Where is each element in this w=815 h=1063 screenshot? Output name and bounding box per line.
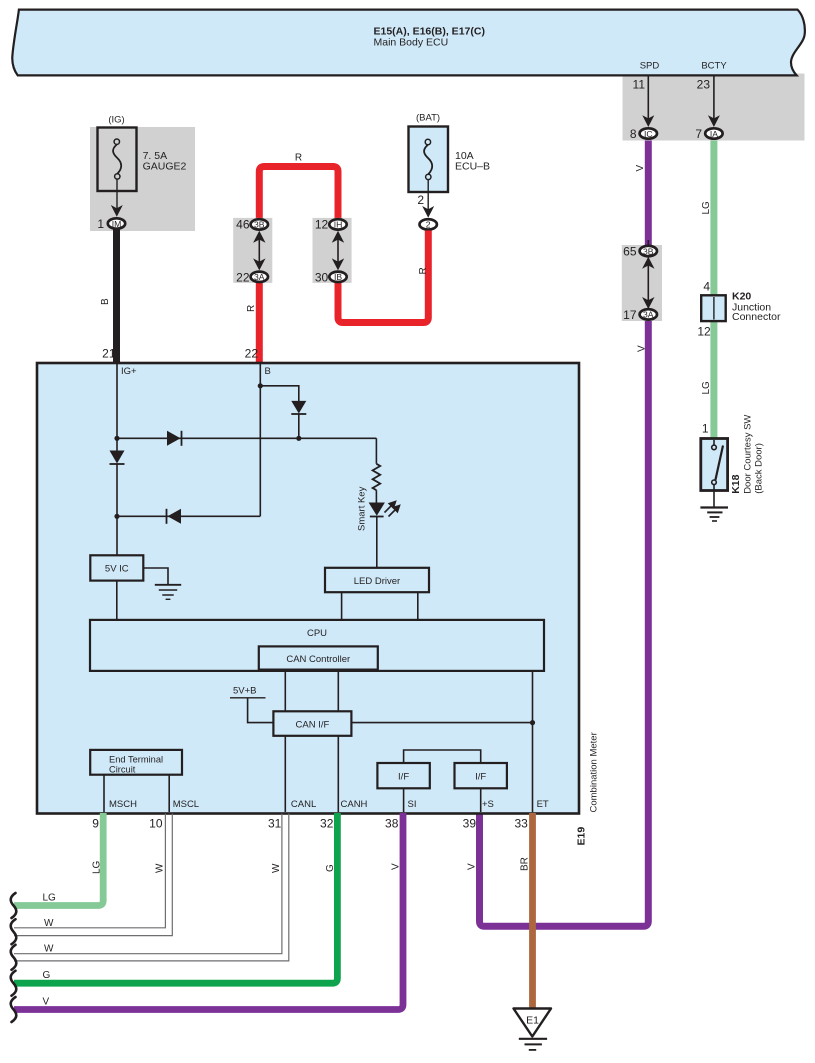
svg-text:65: 65	[623, 245, 637, 259]
svg-text:12: 12	[315, 218, 329, 232]
svg-text:V: V	[43, 997, 50, 1008]
svg-text:R: R	[418, 267, 429, 274]
svg-text:B: B	[100, 298, 111, 305]
svg-text:IM: IM	[112, 219, 122, 229]
svg-text:32: 32	[320, 817, 334, 831]
svg-text:BR: BR	[520, 857, 531, 871]
svg-text:Smart Key: Smart Key	[357, 486, 368, 531]
svg-text:5V+B: 5V+B	[233, 686, 257, 697]
svg-text:End Terminal: End Terminal	[109, 755, 163, 765]
svg-text:Door Courtesy SW: Door Courtesy SW	[743, 415, 754, 494]
svg-text:V: V	[637, 345, 648, 352]
svg-text:IG+: IG+	[121, 366, 137, 377]
svg-text:V: V	[467, 863, 478, 870]
svg-text:Circuit: Circuit	[109, 764, 136, 774]
svg-text:(BAT): (BAT)	[416, 113, 440, 124]
svg-text:38: 38	[385, 817, 399, 831]
svg-text:CPU: CPU	[307, 628, 327, 639]
svg-text:G: G	[43, 970, 51, 981]
svg-text:I/F: I/F	[475, 772, 486, 783]
svg-text:7: 7	[695, 127, 702, 141]
svg-text:E1: E1	[526, 1015, 539, 1027]
svg-text:21: 21	[102, 347, 116, 361]
svg-text:ET: ET	[537, 799, 549, 810]
svg-text:W: W	[44, 918, 54, 929]
svg-text:GAUGE2: GAUGE2	[143, 161, 187, 173]
svg-text:39: 39	[463, 817, 477, 831]
svg-text:IH: IH	[334, 220, 343, 230]
svg-text:W: W	[155, 863, 166, 873]
svg-text:Main Body ECU: Main Body ECU	[374, 36, 449, 48]
svg-text:W: W	[271, 863, 282, 873]
svg-text:LG: LG	[701, 381, 712, 395]
svg-text:CANL: CANL	[291, 799, 316, 810]
svg-text:R: R	[295, 153, 302, 164]
svg-text:(IG): (IG)	[108, 115, 124, 126]
svg-text:W: W	[44, 944, 54, 955]
svg-text:LG: LG	[43, 893, 57, 904]
svg-text:30: 30	[315, 270, 329, 284]
svg-text:BCTY: BCTY	[701, 60, 727, 71]
svg-text:Combination Meter: Combination Meter	[589, 732, 600, 812]
svg-text:I/F: I/F	[398, 772, 409, 783]
svg-text:CAN Controller: CAN Controller	[286, 654, 350, 665]
svg-text:IC: IC	[644, 129, 653, 139]
svg-text:MSCH: MSCH	[109, 799, 137, 810]
svg-text:E19: E19	[576, 827, 588, 846]
svg-text:31: 31	[268, 817, 282, 831]
svg-text:3B: 3B	[254, 220, 265, 230]
svg-text:23: 23	[697, 78, 711, 92]
svg-text:LG: LG	[701, 201, 712, 215]
svg-text:LG: LG	[92, 860, 103, 874]
svg-text:CAN I/F: CAN I/F	[296, 720, 330, 731]
svg-text:5V IC: 5V IC	[105, 564, 129, 575]
svg-text:(Back Door): (Back Door)	[754, 443, 765, 494]
svg-text:IB: IB	[334, 272, 342, 282]
svg-text:12: 12	[697, 325, 711, 339]
svg-text:22: 22	[245, 347, 259, 361]
svg-text:3A: 3A	[643, 310, 654, 320]
svg-text:SPD: SPD	[640, 60, 660, 71]
svg-text:17: 17	[623, 308, 637, 322]
svg-text:10: 10	[149, 817, 163, 831]
svg-text:G: G	[325, 864, 336, 872]
svg-text:1: 1	[702, 422, 709, 436]
svg-text:8: 8	[630, 127, 637, 141]
svg-text:IA: IA	[710, 129, 718, 139]
svg-text:3A: 3A	[254, 272, 265, 282]
svg-text:4: 4	[703, 280, 710, 294]
svg-text:3B: 3B	[643, 246, 654, 256]
svg-text:MSCL: MSCL	[173, 799, 199, 810]
svg-text:ECU–B: ECU–B	[455, 161, 490, 173]
svg-text:1: 1	[97, 217, 104, 231]
svg-text:V: V	[391, 863, 402, 870]
svg-text:11: 11	[633, 78, 646, 92]
svg-text:LED Driver: LED Driver	[354, 576, 400, 587]
svg-text:K18: K18	[730, 474, 742, 493]
svg-text:33: 33	[514, 817, 528, 831]
svg-text:B: B	[265, 366, 271, 377]
svg-text:CANH: CANH	[341, 799, 368, 810]
svg-text:2: 2	[426, 220, 431, 230]
svg-text:22: 22	[236, 270, 250, 284]
svg-text:46: 46	[236, 218, 250, 232]
svg-text:2: 2	[417, 193, 424, 207]
svg-text:9: 9	[92, 817, 99, 831]
svg-text:+S: +S	[482, 799, 494, 810]
svg-text:SI: SI	[408, 799, 417, 810]
svg-text:R: R	[246, 305, 257, 312]
svg-text:Connector: Connector	[732, 311, 781, 323]
svg-text:V: V	[635, 165, 646, 172]
